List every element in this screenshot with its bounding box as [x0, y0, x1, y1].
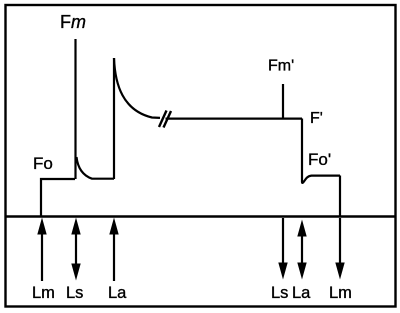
- arrow Ls pulse (double-headed): [71, 218, 80, 281]
- svg-text:Fm: Fm: [60, 12, 86, 32]
- wire: measuring light off final drop: [339, 176, 341, 217]
- svg-text:La: La: [108, 284, 127, 302]
- baseline axis: [5, 215, 396, 218]
- wire: steady-state F' plateau: [166, 117, 303, 119]
- wire: Fm saturating pulse spike: [74, 39, 76, 179]
- wire: decay from Fm spike back to Fo: [77, 157, 115, 179]
- wire: measuring light onset rise to Fo level: [41, 179, 75, 216]
- svg-text:Fo': Fo': [308, 150, 331, 169]
- arrow Ls' pulse (down): [278, 218, 287, 280]
- wire: Fm' saturating pulse tick: [282, 84, 284, 119]
- arrow Lm on (up): [37, 218, 46, 282]
- arrow La off (double-headed): [297, 220, 306, 280]
- arrow La on (up): [109, 218, 118, 282]
- svg-text:F': F': [310, 110, 323, 127]
- wire: actinic light onset rise to P peak: [113, 58, 115, 179]
- svg-text:Lm: Lm: [32, 284, 55, 302]
- svg-text:Ls: Ls: [66, 284, 83, 302]
- break symbol (axis interruption slashes): [159, 111, 171, 128]
- svg-text:Ls: Ls: [271, 284, 288, 302]
- wire: actinic off drop with Fo' dip: [302, 119, 340, 183]
- wire: fluorescence decay to steady state F': [114, 58, 160, 118]
- svg-text:La: La: [292, 284, 311, 302]
- svg-text:Fm': Fm': [268, 58, 294, 75]
- svg-text:Lm: Lm: [329, 284, 352, 302]
- svg-text:Fo: Fo: [33, 154, 53, 173]
- arrow Lm off (down): [335, 218, 344, 280]
